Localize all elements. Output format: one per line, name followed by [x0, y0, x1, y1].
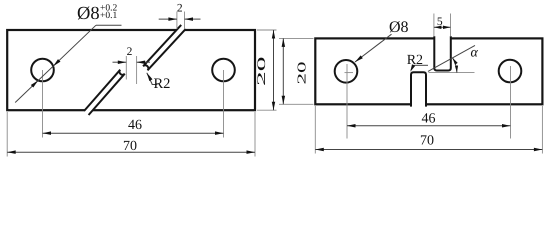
svg-text:Ø8: Ø8 — [389, 19, 409, 36]
svg-text:R2: R2 — [407, 53, 423, 68]
svg-text:+0.1: +0.1 — [100, 11, 117, 21]
svg-text:46: 46 — [422, 111, 436, 126]
svg-text:5: 5 — [437, 16, 443, 28]
svg-text:R2: R2 — [154, 76, 171, 92]
svg-text:2: 2 — [177, 2, 183, 14]
svg-text:20: 20 — [295, 62, 309, 85]
svg-text:70: 70 — [123, 139, 137, 154]
svg-text:20: 20 — [256, 56, 268, 86]
svg-text:α: α — [471, 46, 479, 61]
svg-text:Ø8: Ø8 — [77, 4, 100, 24]
svg-text:46: 46 — [128, 118, 142, 133]
svg-text:2: 2 — [127, 46, 133, 58]
svg-text:70: 70 — [420, 133, 434, 148]
